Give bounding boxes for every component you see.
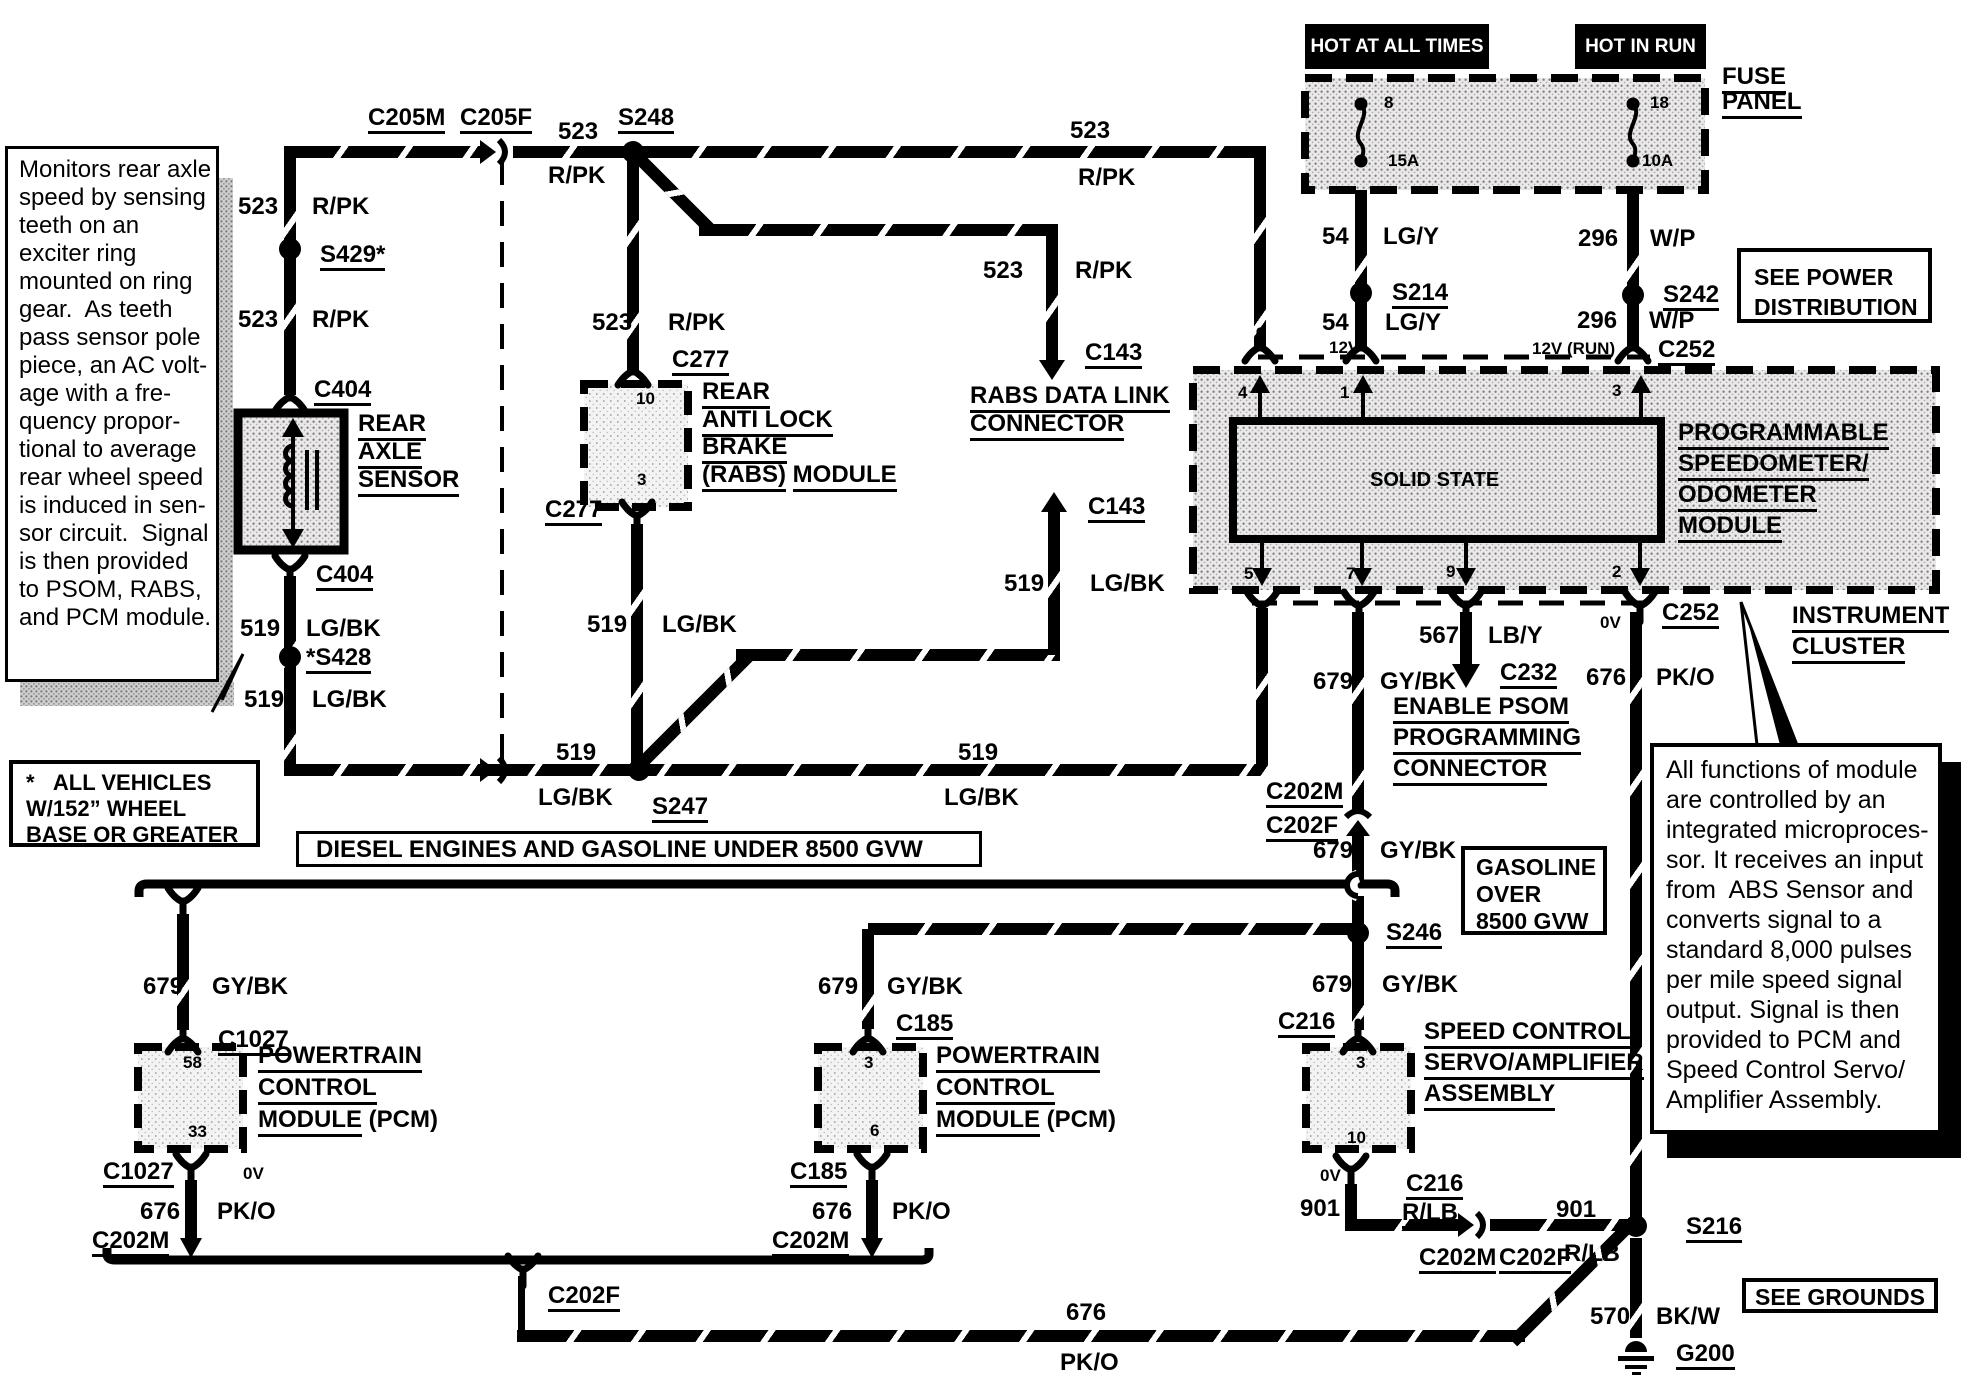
label S248: [618, 105, 674, 134]
wire 570 BK/W from S216 to ground: [1630, 1238, 1642, 1338]
label 676 bottom bus: [1066, 1300, 1106, 1325]
wire 519 LG/BK vertical from PSOM pin 5: [1256, 608, 1268, 776]
label 519 left upper: [240, 616, 280, 641]
PSOM pin 9 internal arrow: [1464, 539, 1468, 576]
label SOLID STATE: [1370, 470, 1499, 491]
wire 676 PK/O from PSOM pin 2 down to S216: [1630, 612, 1642, 1222]
wire 679 GY/BK horizontal run to S246: [868, 923, 1358, 935]
bus tap fork left 679: [168, 888, 198, 918]
label 296 upper: [1578, 226, 1618, 251]
PSOM pin 3: [1612, 382, 1621, 400]
wire 519 LG/BK vertical up to C143 arrow: [1048, 506, 1060, 655]
label 676 pin 2: [1586, 665, 1626, 690]
PSOM pin 5 internal arrow: [1260, 539, 1264, 576]
sensor internal conductor wire: [291, 430, 295, 538]
label C216 lower: [1406, 1171, 1463, 1200]
label POWERTRAIN CONTROL MODULE left: [258, 1040, 438, 1136]
SEE POWER DISTRIBUTION box: [1737, 248, 1932, 323]
RABS module dashed box: [584, 384, 688, 507]
label REAR ANTI LOCK BRAKE (RABS) MODULE: [702, 378, 897, 488]
connector C202M arrow down right PCM: [861, 1238, 883, 1258]
label 901 right: [1556, 1197, 1596, 1222]
label C202M left PCM: [92, 1228, 169, 1257]
note box pointer line to sensor: [212, 654, 243, 712]
label 0V C1027: [243, 1165, 264, 1183]
SEE GROUNDS box: [1742, 1278, 1938, 1313]
label fuse pin 18: [1650, 94, 1669, 112]
wire 679 GY/BK from S246 down to C216: [1352, 940, 1364, 1030]
connector C252 pin 3 fork: [1618, 331, 1648, 361]
diesel/gasoline bus bracket: [139, 884, 1395, 897]
connector C216 upper fork: [1343, 1022, 1373, 1052]
sensor coil: [286, 446, 293, 506]
C205 connector dashed separator line: [500, 160, 504, 766]
label C404 lower: [316, 562, 373, 591]
PSOM pin 7 internal arrow: [1360, 539, 1364, 576]
label 679 below C202: [1313, 838, 1353, 863]
connector C252 pin 1 fork: [1346, 331, 1376, 361]
wire 679 GY/BK vertical from bus down to PCM C1027: [177, 914, 189, 1030]
fuse 8 15A: [1355, 98, 1368, 111]
connector C1027 lower fork: [176, 1154, 206, 1184]
ground G200: [1625, 1341, 1647, 1352]
label R/LB C216: [1402, 1200, 1458, 1229]
connector C1027 upper fork: [168, 1022, 198, 1052]
label *S428: [306, 645, 371, 674]
label R/PK S248 column: [668, 310, 725, 335]
label 523 left lower: [238, 307, 278, 332]
connector C185 lower fork: [857, 1154, 887, 1184]
splice S216: [1625, 1215, 1647, 1237]
label 519 S247 left: [556, 740, 596, 765]
connector C232 arrow down: [1452, 664, 1480, 688]
connector C202F fork on PK/O line: [508, 1256, 538, 1286]
label 296 lower: [1577, 308, 1617, 333]
splice S214: [1350, 282, 1372, 304]
wire 519 LG/BK vertical below RABS C277: [631, 524, 643, 770]
wire 519 LG/BK diagonal from S247: [638, 650, 755, 767]
label C232: [1500, 660, 1557, 689]
label 12V (RUN): [1532, 340, 1615, 358]
connector C252 pin 7 fork: [1344, 592, 1374, 622]
wire 519 LG/BK horizontal to C143: [736, 649, 1060, 661]
SOLID STATE box: [1233, 421, 1661, 539]
wire 523 R/PK horizontal C205F to corner at PSOM pin 4: [513, 146, 1266, 158]
inline connector C202M/C202F chevrons on 901: [1458, 1213, 1483, 1237]
label 519 below RABS: [587, 612, 627, 637]
label C404 upper: [314, 377, 371, 406]
splice S248: [622, 141, 644, 163]
GASOLINE OVER 8500 GVW box: [1461, 846, 1607, 935]
label W/P upper: [1650, 226, 1695, 251]
label C202M right PCM: [772, 1228, 849, 1257]
connector C143 arrow up: [1041, 492, 1067, 512]
PCM C185 dashed box: [818, 1047, 923, 1149]
label RABS DATA LINK CONNECTOR: [970, 382, 1170, 438]
splice S428: [279, 646, 301, 668]
label 679 left PCM: [143, 974, 183, 999]
connector C252 pin 9 fork: [1451, 592, 1481, 622]
PSOM pin 2: [1612, 563, 1621, 581]
label C205F: [460, 105, 532, 134]
label 0V C216: [1320, 1167, 1341, 1185]
label 570: [1590, 1304, 1630, 1329]
wire 676 PK/O below PCM C1027: [185, 1180, 197, 1242]
fuse 18 10A: [1627, 98, 1640, 111]
PCM pin 6: [870, 1122, 879, 1140]
connector C143 arrow down: [1039, 360, 1065, 380]
label fuse pin 8: [1384, 94, 1393, 112]
C252 connector dashed line bottom: [1252, 601, 1652, 606]
PCM pin 58: [183, 1054, 202, 1072]
label C202F on 679: [1266, 813, 1338, 842]
wire 567 LB/Y stub from PSOM pin 9: [1460, 612, 1472, 668]
connector C404 upper fork: [275, 381, 305, 411]
label GY/BK S246 to C216: [1382, 972, 1458, 997]
sensor core bars: [305, 450, 309, 510]
label 679 pin 7 upper: [1313, 669, 1353, 694]
label C202M on 679: [1266, 779, 1343, 808]
rear axle sensor box: [238, 413, 344, 550]
PSOM pin 4 internal arrow: [1258, 385, 1262, 421]
label C252 upper: [1658, 337, 1715, 366]
DIESEL ENGINES bus label box: [296, 831, 982, 867]
splice S429: [279, 238, 301, 260]
fuse panel dashed box: [1305, 78, 1705, 190]
splice S246: [1347, 922, 1369, 944]
label C216 upper: [1278, 1009, 1335, 1038]
label POWERTRAIN CONTROL MODULE right: [936, 1040, 1116, 1136]
label GY/BK pin 7 upper: [1380, 669, 1456, 694]
label S214: [1392, 280, 1448, 309]
inline connector C202M/C202F chevrons on 679: [1346, 811, 1370, 836]
label 523 left upper: [238, 194, 278, 219]
label S247: [652, 794, 708, 823]
label G200: [1676, 1341, 1735, 1370]
wire 676 PK/O bottom bus: [517, 1330, 1525, 1342]
PCM pin 33: [188, 1123, 207, 1141]
label LG/BK C143 column: [1090, 571, 1165, 596]
label 523 S248 column: [592, 310, 632, 335]
connector C252 pin 4 fork: [1245, 331, 1275, 361]
C216 pin 3: [1356, 1054, 1365, 1072]
RABS pin 3: [637, 471, 646, 489]
note box shadow: [219, 178, 233, 698]
connector C277 lower fork: [622, 502, 652, 532]
module function note box: [1650, 743, 1942, 1134]
label LG/BK below RABS: [662, 612, 737, 637]
PCM pin 3: [864, 1054, 873, 1072]
PSOM dashed box: [1193, 370, 1936, 590]
label GY/BK right PCM: [887, 974, 963, 999]
wire 679 GY/BK from bus to S246: [1352, 896, 1364, 934]
PSOM pin 1: [1340, 384, 1349, 402]
label R/PK top right: [1078, 165, 1135, 190]
label C277 upper: [672, 347, 729, 376]
label INSTRUMENT CLUSTER: [1792, 600, 1949, 662]
label PK/O bottom bus: [1060, 1350, 1119, 1375]
label PK/O right PCM: [892, 1199, 951, 1224]
PSOM pin 2 internal arrow: [1638, 539, 1642, 576]
bus hop at S246: [1351, 876, 1358, 895]
label C202F bottom: [548, 1283, 620, 1312]
label C143 lower: [1088, 494, 1145, 523]
label LG/BK S247 right: [944, 785, 1019, 810]
wire 523 R/PK horizontal top run to C205M: [284, 146, 487, 158]
label R/PK left lower: [312, 307, 369, 332]
sensor internal arrow up: [282, 418, 304, 437]
label LG/BK S247 left: [538, 785, 613, 810]
connector C216 lower fork: [1336, 1156, 1366, 1186]
C216 pin 10: [1347, 1129, 1366, 1147]
connector C404 lower fork: [275, 556, 305, 586]
wire 901 R/LB horizontal to C202M: [1345, 1219, 1463, 1231]
label C1027 upper: [218, 1027, 289, 1056]
label C202M on 901: [1419, 1245, 1496, 1274]
connector C252 pin 2 fork: [1625, 592, 1655, 622]
label PROGRAMMABLE SPEEDOMETER ODOMETER MODULE: [1678, 417, 1889, 541]
label SPEED CONTROL SERVO/AMPLIFIER ASSEMBLY: [1424, 1016, 1644, 1109]
label S242: [1663, 282, 1719, 311]
label 679 right PCM: [818, 974, 858, 999]
PK/O common line: [107, 1248, 929, 1260]
wire 54 LG/Y vertical fuse to PSOM pin 1: [1355, 190, 1367, 347]
PCM C1027 dashed box: [138, 1047, 243, 1149]
label C185 lower: [790, 1159, 847, 1188]
wire 523 R/PK vertical from C404 to top corner: [284, 146, 296, 395]
label PK/O left PCM: [217, 1199, 276, 1224]
wire 679 GY/BK from C202F to bus: [1352, 836, 1364, 880]
PSOM pin 1 internal arrow: [1361, 385, 1365, 421]
label 679 S246 to C216: [1312, 972, 1352, 997]
label 519 C143 column: [1004, 571, 1044, 596]
label GY/BK below C202: [1380, 838, 1456, 863]
FUSE PANEL label: [1722, 64, 1802, 114]
label BK/W: [1656, 1304, 1720, 1329]
wire stem below C202F: [518, 1276, 525, 1336]
wire 519 LG/BK vertical below rear axle sensor C404: [284, 576, 296, 770]
inline connector C205M/C205F chevrons: [480, 140, 505, 164]
wire 523 R/PK vertical down to C143 arrow: [1046, 230, 1058, 364]
PSOM pin 7: [1346, 565, 1355, 583]
C252 connector dashed line top: [1258, 355, 1650, 360]
label R/PK left upper: [312, 194, 369, 219]
label 523 top right: [1070, 118, 1110, 143]
label C185 upper: [896, 1011, 953, 1040]
connector C277 upper fork: [618, 355, 648, 385]
label C277 lower: [545, 497, 602, 526]
note text box: [5, 146, 219, 682]
wire 519 LG/BK horizontal S247 run: [284, 764, 1262, 776]
right text box shadow: [1942, 762, 1961, 1158]
label PK/O pin 2: [1656, 665, 1715, 690]
label fuse 10A: [1642, 152, 1673, 170]
label LG/BK left lower: [312, 687, 387, 712]
label 567: [1419, 623, 1459, 648]
label REAR AXLE SENSOR: [358, 410, 459, 494]
label 12V: [1329, 339, 1359, 357]
label 676 right PCM: [812, 1199, 852, 1224]
label C202F on 901: [1499, 1245, 1571, 1274]
label 523 top: [558, 119, 598, 144]
label LG/Y upper: [1383, 224, 1439, 249]
wire 296 W/P vertical fuse to PSOM pin 3: [1627, 190, 1639, 347]
label S429*: [320, 242, 385, 271]
label ENABLE PSOM PROGRAMMING CONNECTOR: [1393, 691, 1581, 784]
label 519 left lower: [244, 687, 284, 712]
label 676 left PCM: [140, 1199, 180, 1224]
label 0V pin 2: [1600, 614, 1621, 632]
wire 523 R/PK vertical S248 to C277: [627, 155, 639, 374]
wire 901 R/LB below C216: [1345, 1184, 1357, 1231]
label LG/Y lower: [1385, 310, 1441, 335]
label R/PK top: [548, 163, 605, 188]
connector C202M arrow down left PCM: [180, 1238, 202, 1258]
label 54 lower: [1322, 310, 1349, 335]
label 901 left: [1300, 1196, 1340, 1221]
connector C185 upper fork: [853, 1022, 883, 1052]
label LG/BK left upper: [306, 616, 381, 641]
wire 901 R/LB horizontal C202F to S216: [1490, 1219, 1638, 1231]
wire 676 PK/O diagonal up to S216: [1509, 1225, 1631, 1347]
PSOM pin 5: [1244, 565, 1253, 583]
label C252 lower: [1662, 600, 1719, 629]
PSOM pin 3 internal arrow: [1639, 385, 1643, 421]
sensor internal arrow down: [282, 529, 304, 548]
PSOM pin 4: [1238, 384, 1247, 402]
splice S242: [1622, 284, 1644, 306]
speed control servo C216 dashed box: [1306, 1047, 1411, 1149]
label LB/Y: [1488, 623, 1543, 648]
ALL VEHICLES note box: [9, 760, 260, 847]
connector C252 pin 5 fork: [1247, 592, 1277, 622]
inline connector C205M/C205F chevrons on 519 run: [480, 758, 505, 782]
wire 523 R/PK horizontal to RABS data link: [699, 224, 1058, 236]
splice S247: [628, 759, 650, 781]
label C205M: [368, 105, 445, 134]
label R/LB right: [1564, 1241, 1620, 1266]
label 54 upper: [1322, 224, 1349, 249]
label W/P lower: [1649, 308, 1694, 333]
wire 679 GY/BK vertical down to PCM C185: [862, 929, 874, 1029]
wire 523 R/PK vertical down to PSOM pin 4: [1254, 152, 1266, 348]
label 519 S247 right: [958, 740, 998, 765]
RABS pin 10: [636, 390, 655, 408]
label S246: [1386, 920, 1442, 949]
label 523 diagonal run: [983, 258, 1023, 283]
HOT AT ALL TIMES box: [1305, 24, 1489, 69]
label C1027 lower: [103, 1159, 174, 1188]
label GY/BK left PCM: [212, 974, 288, 999]
wire 676 PK/O below PCM C185: [866, 1180, 878, 1242]
label fuse 15A: [1388, 152, 1419, 170]
wire 679 GY/BK from PSOM pin 7 to C202M: [1352, 612, 1364, 810]
label C143 upper: [1085, 340, 1142, 369]
HOT IN RUN box: [1575, 24, 1706, 69]
label R/PK diagonal run: [1075, 258, 1132, 283]
PSOM pin 9: [1446, 563, 1455, 581]
instrument cluster callout triangle: [1741, 602, 1797, 745]
label S216: [1686, 1214, 1742, 1243]
wire 523 R/PK diagonal from S248: [630, 149, 716, 235]
